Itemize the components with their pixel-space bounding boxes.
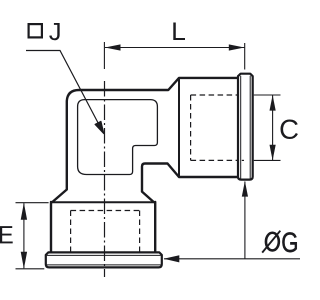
dimension ØG: up arrowhead on right flange <box>242 181 248 197</box>
cone/cylinder junction line, right port <box>178 78 180 177</box>
dimension E: bottom arrowhead <box>21 252 27 269</box>
label E <box>0 226 13 243</box>
hidden thread bore, bottom port (dashed) <box>71 211 140 252</box>
inner contour of body face <box>78 100 158 175</box>
flange of right port <box>238 74 253 180</box>
dimension C: dimension line <box>272 96 274 161</box>
dimension L: right extension line <box>244 43 246 70</box>
dimension L: dimension line <box>105 47 245 49</box>
label L <box>173 23 185 40</box>
dimension E: top extension line <box>16 202 49 204</box>
dimension L: left extension line (above body centerline) <box>103 42 105 69</box>
dimension ØG: horizontal leader to bottom flange <box>164 258 300 260</box>
dimension L: right arrowhead <box>229 44 245 50</box>
dimension C: bottom extension line <box>254 159 281 161</box>
dot of center mark in right flange <box>242 159 244 161</box>
flange of bottom port <box>46 252 162 267</box>
dimension E: top arrowhead <box>21 203 27 220</box>
flange inner edge lines (right port) <box>240 76 242 179</box>
cone/cylinder junction line, bottom port <box>51 201 155 203</box>
elbow body with right and bottom ports (outer contour) <box>51 78 240 255</box>
dimension C: top arrowhead <box>270 95 276 111</box>
label J <box>49 23 59 40</box>
dimension C: top extension line <box>254 94 281 96</box>
label ØG <box>262 231 297 253</box>
dimension ØG: left arrowhead on bottom flange <box>164 255 180 262</box>
flange inner edge lines (bottom port) <box>47 254 161 256</box>
square symbol of J label <box>29 24 42 37</box>
hidden thread bore, right port (dashed) <box>191 95 237 160</box>
dimension L: left arrowhead <box>105 44 121 50</box>
dimension E: bottom extension line <box>16 268 45 270</box>
leader line from J to body centre <box>26 51 100 128</box>
dimension E: dimension line <box>23 203 25 268</box>
label C <box>280 119 297 138</box>
leader arrowhead <box>95 121 104 133</box>
dimension ØG: vertical leader to right flange <box>244 182 246 259</box>
dimension C: bottom arrowhead <box>270 145 276 161</box>
vertical centerline of bottom port <box>104 81 106 277</box>
